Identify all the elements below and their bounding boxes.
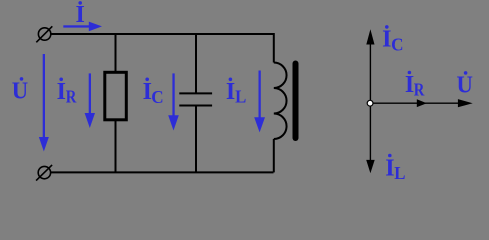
phasor label U, dotted xyxy=(457,71,473,98)
phasor label IR, dotted xyxy=(405,71,425,100)
terminal top-left xyxy=(36,26,52,42)
wire inductor top lead xyxy=(273,33,275,63)
resistor R xyxy=(105,72,127,120)
current arrow I (top, pointing right) xyxy=(63,22,102,32)
wire bottom xyxy=(51,171,274,173)
svg-text:I: I xyxy=(385,155,394,181)
label IL, dotted xyxy=(226,78,246,107)
svg-text:L: L xyxy=(394,163,405,183)
inductor core bar xyxy=(293,64,299,139)
phasor arrowhead U xyxy=(458,99,473,107)
svg-text:I: I xyxy=(76,2,85,28)
label I (top), dotted xyxy=(76,1,85,28)
svg-text:I: I xyxy=(57,79,66,105)
voltage arrow U (left, pointing down) xyxy=(39,54,49,152)
wire inductor bottom lead xyxy=(273,139,275,172)
svg-text:C: C xyxy=(151,87,163,107)
wire capacitor top lead xyxy=(195,34,197,93)
phasor origin node xyxy=(367,100,373,106)
phasor arrowhead down (IL) xyxy=(366,160,375,173)
phasor arrowhead up (IC) xyxy=(366,29,374,44)
svg-text:I: I xyxy=(226,79,235,105)
phasor arrowhead IR xyxy=(417,99,427,107)
current arrow IC (pointing down) xyxy=(168,73,179,130)
wire top xyxy=(51,33,275,35)
svg-text:U: U xyxy=(12,78,28,104)
wire capacitor bottom lead xyxy=(195,106,197,173)
current arrow IL (pointing down) xyxy=(254,71,265,133)
capacitor C plates xyxy=(179,93,212,105)
svg-text:L: L xyxy=(235,87,246,107)
wire resistor top lead xyxy=(115,34,117,72)
phasor label IC, dotted xyxy=(382,25,403,54)
phasor label IL, dotted xyxy=(385,154,405,183)
terminal bottom-left xyxy=(36,165,52,181)
svg-text:R: R xyxy=(66,87,77,107)
phasor axis vertical line xyxy=(369,43,371,161)
inductor L coil xyxy=(274,63,287,140)
label IR, dotted xyxy=(57,78,77,107)
svg-text:U: U xyxy=(457,72,473,98)
svg-text:C: C xyxy=(391,34,403,54)
current arrow IR (pointing down) xyxy=(85,73,95,128)
label U (left), dotted xyxy=(12,77,28,104)
wire resistor bottom lead xyxy=(115,120,117,173)
label IC, dotted xyxy=(143,78,164,108)
svg-text:I: I xyxy=(382,26,391,52)
phasor axis horizontal line xyxy=(370,102,459,104)
svg-text:R: R xyxy=(414,79,425,99)
